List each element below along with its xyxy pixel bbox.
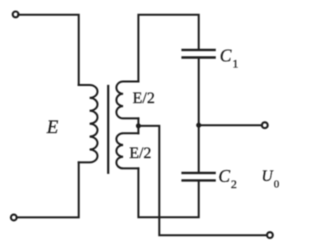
terminal: output bottom-right: [267, 232, 273, 238]
svg-text:2: 2: [231, 177, 237, 191]
node: output junction dot: [196, 123, 201, 128]
svg-text:E/2: E/2: [133, 90, 155, 107]
inductor: transformer primary winding (E): [79, 85, 98, 162]
wire: center tap to bottom-right terminal: [138, 126, 266, 235]
inductor: secondary upper winding (E/2): [116, 82, 138, 119]
svg-text:0: 0: [274, 178, 280, 190]
svg-text:U: U: [262, 168, 275, 185]
capacitor C2 plates: [183, 172, 215, 174]
wire: secondary bottom to C2 bottom: [138, 168, 198, 217]
wire: top rail from secondary top to C1: [138, 15, 198, 82]
svg-text:C: C: [218, 166, 230, 186]
transformer core: [107, 86, 109, 173]
terminal: output mid-right: [262, 122, 268, 128]
svg-text:C: C: [220, 46, 232, 66]
wire: secondary mid segment (between windings): [137, 118, 139, 133]
terminal: input bottom-left: [11, 215, 17, 221]
capacitor C1 plates: [183, 49, 215, 51]
svg-text:E: E: [46, 117, 59, 138]
terminal: input top-left: [13, 12, 19, 18]
wire: output node to mid-right terminal: [199, 124, 262, 126]
svg-text:1: 1: [232, 56, 238, 70]
inductor: secondary lower winding (E/2): [116, 133, 138, 168]
wire: primary bottom to bottom-left terminal: [17, 162, 79, 217]
svg-text:E/2: E/2: [129, 145, 151, 162]
wire: top-left terminal to primary top: [18, 15, 78, 85]
wire: C1 bottom through output node to C2 top: [198, 58, 200, 172]
node: center tap junction dot: [136, 123, 141, 128]
